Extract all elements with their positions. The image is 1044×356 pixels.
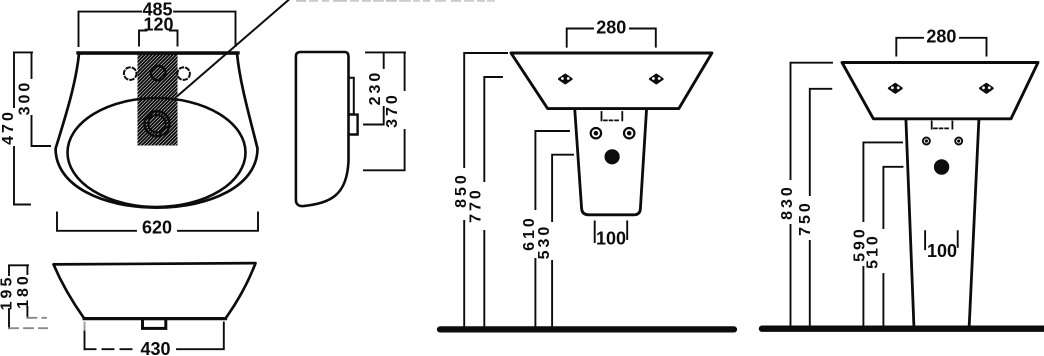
svg-text:430: 430 bbox=[140, 339, 170, 356]
semi-pedestal bbox=[575, 110, 647, 215]
svg-text:470: 470 bbox=[0, 109, 17, 145]
hidden overflow dashed bracket bbox=[932, 122, 953, 129]
dimension 300 bbox=[32, 52, 51, 146]
basin front outline bbox=[54, 263, 256, 318]
shared top tick bbox=[366, 51, 405, 53]
leader line to drain bbox=[178, 0, 289, 96]
dimension 750 bbox=[810, 89, 832, 325]
dimension 850 bbox=[464, 53, 507, 326]
svg-text:620: 620 bbox=[142, 218, 172, 238]
fixing hole symbol left bbox=[559, 75, 572, 84]
basin outer outline bbox=[56, 53, 258, 207]
dimension 100 bbox=[925, 231, 958, 249]
svg-text:510: 510 bbox=[865, 233, 882, 269]
dimension 530 bbox=[552, 155, 573, 327]
pedestal fixing hole right bbox=[955, 138, 962, 145]
basin body bbox=[511, 53, 712, 109]
dimension 100 bbox=[595, 221, 628, 242]
svg-text:280: 280 bbox=[926, 27, 956, 47]
svg-text:230: 230 bbox=[367, 70, 384, 106]
svg-text:120: 120 bbox=[143, 15, 173, 35]
svg-text:180: 180 bbox=[15, 273, 32, 309]
svg-text:195: 195 bbox=[0, 275, 16, 311]
drain opening bbox=[934, 159, 949, 174]
dimension 280 bbox=[567, 29, 656, 47]
basin body bbox=[842, 63, 1038, 119]
pedestal fixing hole left bbox=[591, 128, 601, 138]
bowl inner ellipse bbox=[68, 98, 246, 207]
dimension 195 bbox=[9, 265, 28, 328]
svg-text:100: 100 bbox=[927, 241, 957, 261]
drain hole inner bbox=[148, 115, 165, 132]
dimension 590 bbox=[863, 142, 902, 325]
dimension 180 bbox=[26, 265, 28, 318]
dimension 370 bbox=[364, 52, 405, 170]
upper mounting tab bbox=[350, 78, 354, 115]
dimension 610 bbox=[535, 131, 569, 326]
svg-text:750: 750 bbox=[797, 200, 814, 236]
svg-text:370: 370 bbox=[384, 92, 401, 128]
floor line bbox=[440, 326, 734, 332]
pedestal fixing hole right bbox=[624, 128, 634, 138]
fixing hole symbol left bbox=[889, 84, 902, 93]
hidden overflow dashed bracket bbox=[602, 112, 623, 120]
svg-text:770: 770 bbox=[468, 187, 485, 223]
dimension 120 bbox=[139, 31, 178, 46]
lower mounting tab bbox=[350, 115, 358, 135]
cropped text remnants top edge bbox=[296, 0, 495, 2]
dimension 230 bbox=[364, 52, 384, 124]
optional faucet hole left (dashed) bbox=[124, 67, 137, 80]
dimension 510 bbox=[883, 167, 902, 325]
svg-text:530: 530 bbox=[536, 224, 553, 260]
drain fitting tab bbox=[143, 319, 166, 329]
dimension 620 bbox=[57, 212, 258, 230]
svg-text:300: 300 bbox=[17, 80, 34, 116]
full pedestal bbox=[906, 119, 914, 326]
drain opening bbox=[605, 149, 620, 164]
faucet hole bbox=[151, 66, 166, 81]
dimension 470 bbox=[14, 52, 32, 204]
dimension 430 bbox=[85, 323, 224, 350]
pedestal fixing hole left bbox=[923, 138, 930, 145]
svg-text:280: 280 bbox=[596, 17, 626, 37]
dimension 485 bbox=[79, 12, 236, 46]
basin front bottom edge bbox=[84, 317, 225, 320]
hatched fixing zone bbox=[138, 54, 178, 145]
fixing hole symbol right bbox=[980, 84, 993, 93]
basin top edge bbox=[78, 51, 238, 54]
dimension 770 bbox=[484, 77, 502, 326]
side profile outline bbox=[296, 52, 349, 206]
svg-text:100: 100 bbox=[596, 229, 626, 249]
dimension 830 bbox=[791, 63, 833, 326]
optional faucet hole right (dashed) bbox=[177, 67, 190, 80]
dimension 280 bbox=[896, 38, 986, 56]
floor line bbox=[762, 326, 1044, 332]
fixing hole symbol right bbox=[650, 75, 663, 84]
svg-text:830: 830 bbox=[779, 184, 796, 220]
drain hole outer bbox=[145, 111, 170, 136]
